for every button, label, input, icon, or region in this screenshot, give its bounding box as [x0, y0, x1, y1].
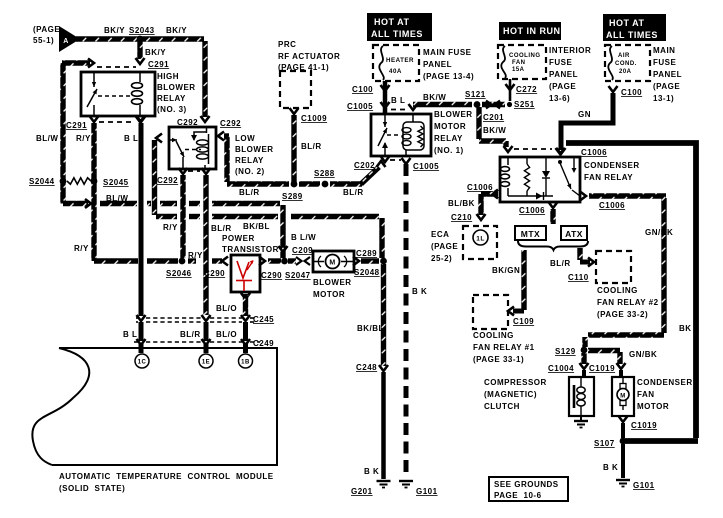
svg-text:BL/R: BL/R: [211, 224, 232, 233]
svg-text:C1019: C1019: [589, 364, 615, 373]
svg-text:MTX: MTX: [521, 229, 540, 239]
svg-text:C209: C209: [292, 246, 313, 255]
svg-text:PANEL: PANEL: [423, 60, 452, 69]
svg-text:(PAGE: (PAGE: [33, 25, 60, 34]
svg-text:BK/BL: BK/BL: [243, 222, 270, 231]
svg-text:C292: C292: [220, 119, 241, 128]
svg-text:BL/R: BL/R: [180, 330, 201, 339]
svg-text:25-2): 25-2): [431, 254, 452, 263]
svg-text:BL/BK: BL/BK: [448, 199, 475, 208]
svg-text:C1005: C1005: [347, 102, 373, 111]
svg-text:BK/Y: BK/Y: [145, 48, 166, 57]
svg-text:(PAGE: (PAGE: [653, 82, 680, 91]
svg-text:S2046: S2046: [166, 269, 192, 278]
svg-text:SEE GROUNDS: SEE GROUNDS: [494, 480, 559, 489]
svg-text:BLOWER: BLOWER: [157, 83, 196, 92]
svg-text:AIR: AIR: [618, 53, 630, 59]
svg-text:RELAY: RELAY: [157, 94, 186, 103]
svg-text:HEATER: HEATER: [386, 57, 414, 64]
svg-text:ATX: ATX: [565, 229, 583, 239]
svg-text:1B: 1B: [241, 360, 250, 366]
svg-text:C109: C109: [513, 317, 534, 326]
svg-text:55-1): 55-1): [33, 36, 54, 45]
svg-text:BL/R: BL/R: [239, 188, 260, 197]
svg-text:1L: 1L: [476, 236, 485, 243]
svg-text:HIGH: HIGH: [157, 72, 179, 81]
svg-text:G101: G101: [633, 481, 655, 490]
svg-text:FAN RELAY: FAN RELAY: [584, 173, 633, 182]
svg-text:BK/Y: BK/Y: [166, 26, 187, 35]
svg-text:AUTOMATIC TEMPERATURE CONTRO: AUTOMATIC TEMPERATURE CONTROL MODULE: [59, 472, 274, 481]
svg-text:(PAGE 13-4): (PAGE 13-4): [423, 72, 474, 81]
svg-text:(PAGE 33-1): (PAGE 33-1): [473, 355, 524, 364]
svg-text:(NO. 2): (NO. 2): [235, 167, 265, 176]
svg-text:BL/O: BL/O: [216, 330, 237, 339]
svg-text:BL/R: BL/R: [301, 142, 322, 151]
svg-text:(NO. 1): (NO. 1): [434, 146, 464, 155]
svg-text:BLOWER: BLOWER: [434, 110, 473, 119]
svg-text:(NO. 3): (NO. 3): [157, 105, 187, 114]
svg-text:BK/BL: BK/BL: [357, 324, 384, 333]
svg-text:COOLING: COOLING: [509, 53, 541, 59]
svg-text:HOT AT: HOT AT: [374, 17, 410, 27]
svg-text:B L: B L: [124, 134, 138, 143]
svg-text:G201: G201: [351, 487, 373, 496]
svg-text:S289: S289: [282, 192, 303, 201]
svg-text:M: M: [620, 394, 626, 400]
svg-text:A: A: [63, 38, 69, 45]
svg-text:15A: 15A: [512, 67, 525, 73]
svg-text:MOTOR: MOTOR: [434, 122, 466, 131]
svg-text:C1006: C1006: [581, 148, 607, 157]
svg-text:C292: C292: [157, 176, 178, 185]
svg-text:C100: C100: [352, 85, 373, 94]
svg-text:C291: C291: [66, 121, 87, 130]
svg-text:GN: GN: [578, 110, 591, 119]
svg-text:TRANSISTOR: TRANSISTOR: [222, 245, 279, 254]
svg-text:RELAY: RELAY: [235, 156, 264, 165]
svg-text:BK: BK: [679, 324, 692, 333]
svg-text:COMPRESSOR: COMPRESSOR: [484, 378, 547, 387]
svg-text:C249: C249: [253, 339, 274, 348]
svg-text:BK/W: BK/W: [423, 93, 446, 102]
svg-text:B L/W: B L/W: [291, 233, 316, 242]
svg-text:1E: 1E: [202, 360, 210, 366]
svg-text:CONDENSER: CONDENSER: [584, 161, 640, 170]
svg-text:PRC: PRC: [278, 40, 296, 49]
svg-text:S2045: S2045: [103, 178, 129, 187]
svg-text:GN/BK: GN/BK: [629, 350, 657, 359]
svg-text:S129: S129: [555, 347, 576, 356]
svg-text:C1004: C1004: [548, 364, 574, 373]
svg-text:BLOWER: BLOWER: [235, 145, 274, 154]
svg-text:40A: 40A: [389, 68, 402, 75]
svg-text:BK/Y: BK/Y: [104, 26, 125, 35]
svg-text:C100: C100: [621, 88, 642, 97]
svg-text:FAN: FAN: [637, 390, 655, 399]
svg-text:BK/GN: BK/GN: [492, 266, 520, 275]
svg-text:C1006: C1006: [519, 206, 545, 215]
svg-text:FAN RELAY #1: FAN RELAY #1: [473, 343, 535, 352]
svg-text:C272: C272: [516, 85, 537, 94]
svg-text:S2048: S2048: [354, 268, 380, 277]
svg-text:C245: C245: [253, 315, 274, 324]
svg-text:C201: C201: [483, 113, 504, 122]
svg-text:BL/W: BL/W: [36, 134, 58, 143]
svg-text:S121: S121: [465, 90, 486, 99]
svg-text:C202: C202: [354, 161, 375, 170]
svg-text:C289: C289: [356, 249, 377, 258]
svg-text:ALL TIMES: ALL TIMES: [371, 29, 423, 39]
svg-text:R/Y: R/Y: [76, 134, 91, 143]
svg-text:FUSE: FUSE: [549, 58, 573, 67]
svg-text:C290: C290: [261, 271, 282, 280]
svg-text:B L: B L: [123, 330, 137, 339]
svg-text:S251: S251: [514, 100, 535, 109]
svg-text:13-6): 13-6): [549, 94, 570, 103]
svg-text:(PAGE: (PAGE: [431, 242, 458, 251]
svg-text:MOTOR: MOTOR: [313, 290, 345, 299]
svg-text:POWER: POWER: [222, 234, 255, 243]
svg-text:C291: C291: [148, 60, 169, 69]
svg-text:COOLING: COOLING: [597, 286, 638, 295]
svg-text:(PAGE 33-2): (PAGE 33-2): [597, 310, 648, 319]
svg-text:ECA: ECA: [431, 230, 449, 239]
svg-text:PANEL: PANEL: [549, 70, 578, 79]
svg-text:RELAY: RELAY: [434, 134, 463, 143]
svg-text:HOT IN RUN: HOT IN RUN: [503, 26, 561, 36]
svg-text:ALL TIMES: ALL TIMES: [606, 30, 658, 40]
svg-text:C1006: C1006: [467, 183, 493, 192]
svg-text:(PAGE: (PAGE: [549, 82, 576, 91]
svg-text:FUSE: FUSE: [653, 58, 677, 67]
svg-text:C1009: C1009: [301, 114, 327, 123]
svg-text:CONDENSER: CONDENSER: [637, 378, 693, 387]
svg-text:MAIN: MAIN: [653, 46, 675, 55]
svg-text:(SOLID STATE): (SOLID STATE): [59, 484, 125, 493]
svg-text:S2047: S2047: [285, 271, 311, 280]
svg-text:MAIN FUSE: MAIN FUSE: [423, 48, 472, 57]
svg-text:COOLING: COOLING: [473, 331, 514, 340]
svg-text:BL/R: BL/R: [343, 188, 364, 197]
svg-text:C210: C210: [451, 213, 472, 222]
svg-text:S107: S107: [594, 439, 615, 448]
svg-text:CLUTCH: CLUTCH: [484, 402, 520, 411]
svg-text:20A: 20A: [619, 69, 632, 75]
svg-text:PANEL: PANEL: [653, 70, 682, 79]
svg-text:G101: G101: [416, 487, 438, 496]
svg-text:INTERIOR: INTERIOR: [549, 46, 591, 55]
svg-text:B K: B K: [412, 287, 427, 296]
svg-text:FAN RELAY #2: FAN RELAY #2: [597, 298, 659, 307]
svg-text:S2044: S2044: [29, 177, 55, 186]
svg-text:RF ACTUATOR: RF ACTUATOR: [278, 52, 340, 61]
svg-text:13-1): 13-1): [653, 94, 674, 103]
svg-text:B K: B K: [364, 467, 379, 476]
svg-text:COND.: COND.: [615, 61, 637, 67]
svg-text:MOTOR: MOTOR: [637, 402, 669, 411]
svg-text:C1019: C1019: [631, 421, 657, 430]
svg-text:(MAGNETIC): (MAGNETIC): [484, 390, 537, 399]
svg-text:BK/W: BK/W: [483, 126, 506, 135]
svg-text:C290: C290: [204, 269, 225, 278]
svg-text:FAN: FAN: [512, 60, 526, 66]
svg-text:R/Y: R/Y: [163, 223, 178, 232]
svg-text:S288: S288: [314, 169, 335, 178]
svg-text:BL/O: BL/O: [216, 304, 237, 313]
svg-text:LOW: LOW: [235, 134, 255, 143]
svg-text:C248: C248: [356, 363, 377, 372]
svg-text:B K: B K: [603, 463, 618, 472]
svg-text:C110: C110: [568, 273, 589, 282]
svg-text:B L: B L: [391, 96, 405, 105]
svg-text:C1006: C1006: [599, 201, 625, 210]
svg-text:R/Y: R/Y: [74, 244, 89, 253]
svg-text:BL/R: BL/R: [550, 259, 571, 268]
svg-text:C1005: C1005: [413, 162, 439, 171]
svg-text:M: M: [329, 260, 335, 267]
svg-text:HOT AT: HOT AT: [609, 18, 645, 28]
svg-text:PAGE 10-6: PAGE 10-6: [494, 491, 542, 500]
svg-text:1C: 1C: [138, 360, 147, 366]
svg-text:S2043: S2043: [129, 26, 155, 35]
svg-text:BLOWER: BLOWER: [313, 278, 352, 287]
svg-text:GN/BK: GN/BK: [645, 228, 673, 237]
